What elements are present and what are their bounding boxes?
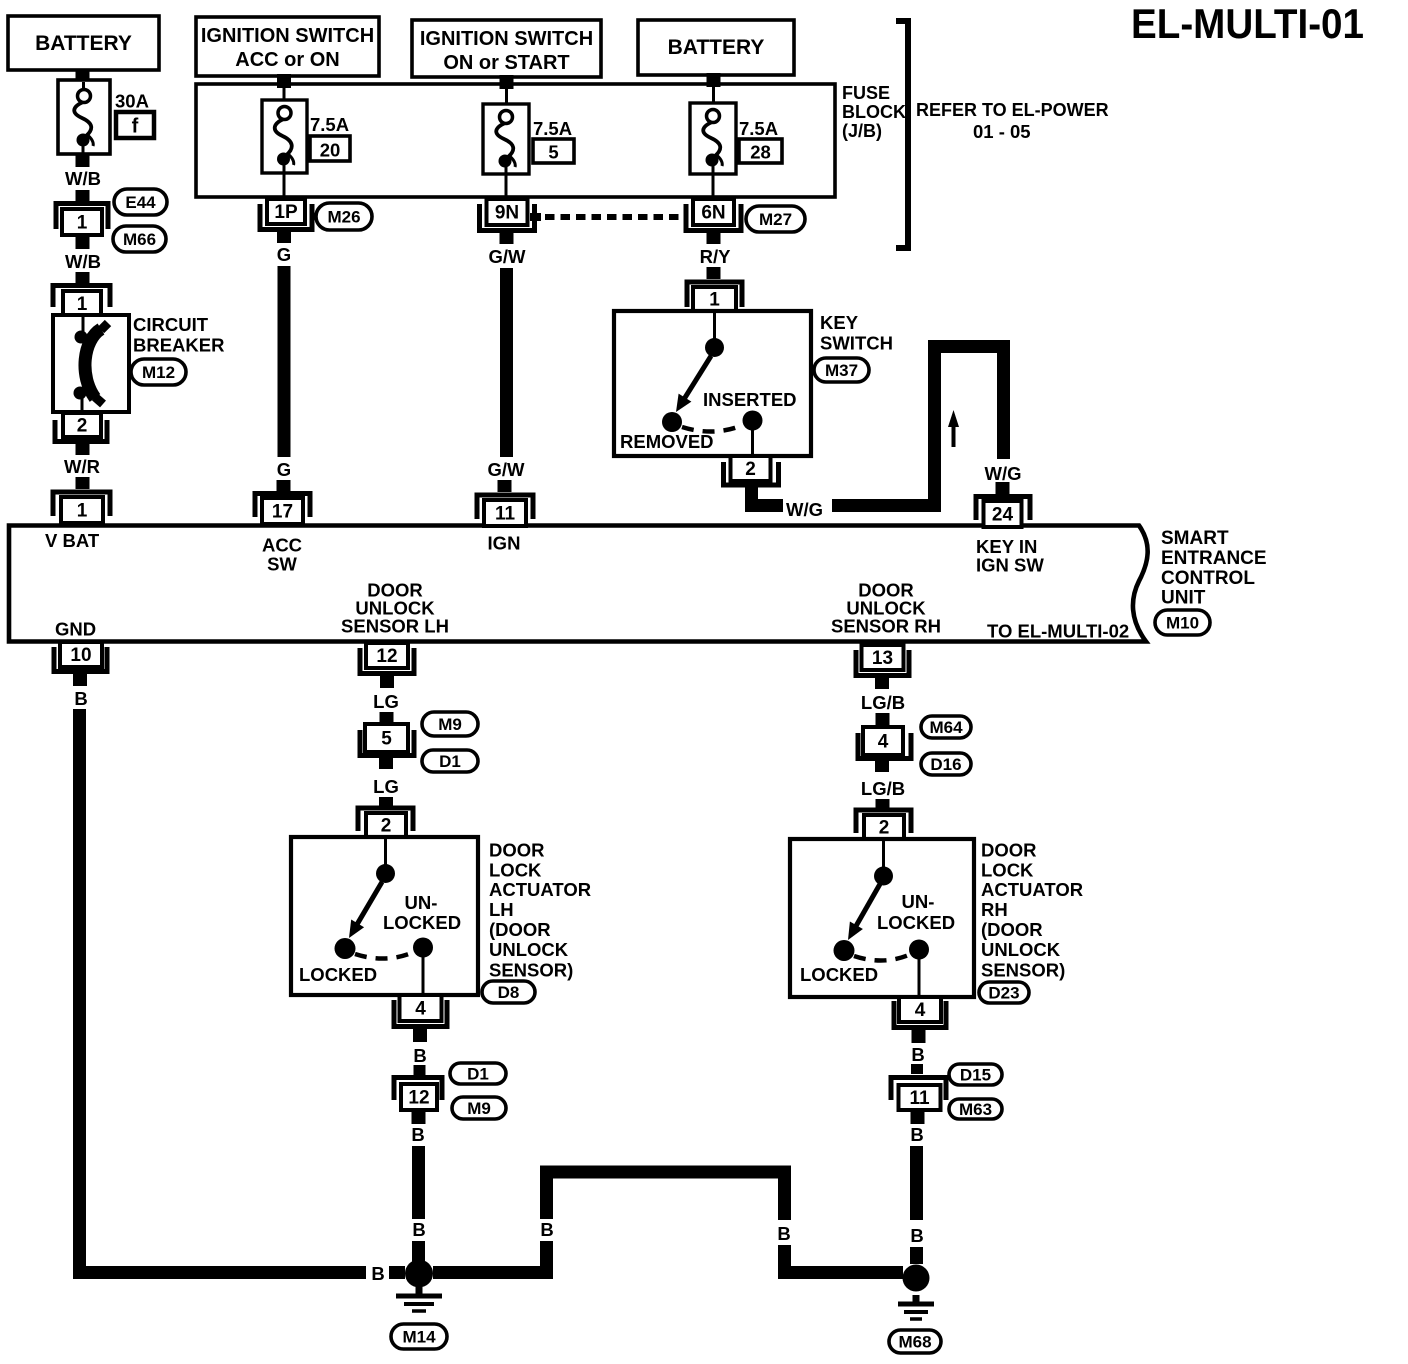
svg-text:4: 4 xyxy=(415,999,426,1020)
svg-text:1: 1 xyxy=(77,294,88,315)
ground label M68 xyxy=(889,1330,941,1353)
connector label M10 xyxy=(1155,610,1210,635)
terminal 17 ACC SW xyxy=(255,494,310,525)
svg-text:FUSE: FUSE xyxy=(842,83,890,103)
wire ON/START switch to fuse 5 xyxy=(500,75,514,111)
svg-text:W/B: W/B xyxy=(65,251,101,272)
door lock actuator LH D8 xyxy=(291,837,591,995)
fuse 20 7.5A xyxy=(262,100,350,199)
connector label D8 xyxy=(482,981,535,1003)
svg-text:1: 1 xyxy=(77,213,88,234)
connector pin 1 circuit breaker xyxy=(53,286,110,317)
svg-text:DOOR: DOOR xyxy=(489,840,545,861)
svg-text:ACC or ON: ACC or ON xyxy=(235,49,339,71)
svg-text:D8: D8 xyxy=(498,983,520,1002)
connector label M37 xyxy=(814,358,869,382)
svg-text:UNLOCK: UNLOCK xyxy=(981,939,1061,960)
connector label M66 xyxy=(113,226,166,252)
svg-text:1P: 1P xyxy=(274,202,298,223)
svg-text:SMART: SMART xyxy=(1161,528,1229,549)
svg-text:LOCK: LOCK xyxy=(489,860,542,881)
title EL-MULTI-01 xyxy=(1131,0,1364,47)
connector 4 actuator LH xyxy=(394,995,447,1042)
svg-text:D1: D1 xyxy=(439,752,461,771)
svg-text:9N: 9N xyxy=(495,203,519,224)
connector label D15 xyxy=(949,1064,1002,1085)
svg-text:M37: M37 xyxy=(825,361,858,380)
svg-text:B: B xyxy=(413,1045,426,1066)
connector 2 actuator RH xyxy=(856,810,911,839)
connector label M9 (lower) xyxy=(452,1097,506,1119)
ignition switch ON or START xyxy=(412,20,601,77)
svg-text:D23: D23 xyxy=(988,984,1019,1003)
connector 1 key switch xyxy=(687,282,742,311)
svg-text:RH: RH xyxy=(981,899,1008,920)
svg-text:01 - 05: 01 - 05 xyxy=(973,121,1031,142)
svg-text:B: B xyxy=(540,1219,553,1240)
terminal 24 KEY IN IGN SW xyxy=(976,497,1030,528)
connector label M63 xyxy=(949,1099,1002,1119)
svg-text:LG/B: LG/B xyxy=(861,692,905,713)
svg-text:G/W: G/W xyxy=(488,459,526,480)
svg-text:R/Y: R/Y xyxy=(700,246,732,267)
svg-text:LOCK: LOCK xyxy=(981,860,1034,881)
wire W/R xyxy=(64,456,100,489)
svg-text:W/G: W/G xyxy=(786,499,823,520)
svg-text:7.5A: 7.5A xyxy=(533,118,572,139)
svg-text:LG/B: LG/B xyxy=(861,778,905,799)
svg-text:10: 10 xyxy=(70,645,91,666)
svg-text:G/W: G/W xyxy=(489,246,527,267)
connector label D1 (upper) xyxy=(422,750,478,772)
svg-text:UNLOCK: UNLOCK xyxy=(489,939,569,960)
connector 4 M64/D16 xyxy=(858,713,911,772)
svg-text:LOCKED: LOCKED xyxy=(877,912,955,933)
svg-text:D15: D15 xyxy=(960,1066,991,1085)
svg-text:DOOR: DOOR xyxy=(981,840,1037,861)
wire G/W xyxy=(488,246,527,492)
svg-text:BATTERY: BATTERY xyxy=(35,32,132,55)
svg-text:M12: M12 xyxy=(142,363,175,382)
connector label D23 xyxy=(979,982,1029,1003)
svg-text:LOCKED: LOCKED xyxy=(383,912,461,933)
svg-text:M26: M26 xyxy=(327,208,360,227)
svg-text:2: 2 xyxy=(77,416,88,437)
svg-text:G: G xyxy=(277,459,291,480)
svg-text:B: B xyxy=(412,1219,425,1240)
svg-text:SENSOR RH: SENSOR RH xyxy=(831,616,941,637)
svg-text:17: 17 xyxy=(272,502,293,523)
ground label M14 xyxy=(391,1324,447,1349)
svg-text:M9: M9 xyxy=(438,715,462,734)
direction arrow up xyxy=(948,410,959,447)
svg-text:IGNITION SWITCH: IGNITION SWITCH xyxy=(201,25,374,47)
svg-text:M9: M9 xyxy=(467,1099,491,1118)
junction node M68 xyxy=(903,1265,930,1292)
connector label D16 xyxy=(921,753,971,775)
svg-text:GND: GND xyxy=(55,619,96,640)
svg-text:SWITCH: SWITCH xyxy=(820,333,893,354)
svg-text:M68: M68 xyxy=(898,1333,931,1352)
fuse 5 7.5A xyxy=(483,104,574,199)
svg-text:BATTERY: BATTERY xyxy=(668,36,765,59)
connector label M64 xyxy=(921,716,971,738)
svg-text:D1: D1 xyxy=(467,1065,489,1084)
svg-text:D16: D16 xyxy=(930,755,961,774)
svg-text:7.5A: 7.5A xyxy=(739,118,778,139)
svg-text:4: 4 xyxy=(915,1000,926,1021)
svg-text:B: B xyxy=(371,1263,384,1284)
svg-text:B: B xyxy=(74,688,87,709)
svg-text:5: 5 xyxy=(548,142,558,163)
svg-text:M27: M27 xyxy=(759,210,792,229)
wire LG/B lower xyxy=(861,778,905,808)
terminal 10 GND xyxy=(54,642,107,686)
svg-text:IGN SW: IGN SW xyxy=(976,555,1044,576)
svg-text:B: B xyxy=(910,1225,923,1246)
svg-text:REFER TO EL-POWER: REFER TO EL-POWER xyxy=(916,100,1109,120)
wire battery to fuse 28 xyxy=(707,73,721,109)
wire B below actuator LH xyxy=(413,1045,426,1075)
wire LG upper xyxy=(373,691,399,712)
connector label E44 xyxy=(114,189,167,215)
connector label M9 (upper) xyxy=(422,712,478,736)
svg-text:IGNITION SWITCH: IGNITION SWITCH xyxy=(420,28,593,50)
junction node M14 xyxy=(405,1260,433,1288)
connector 9N xyxy=(480,199,535,244)
connector 1P xyxy=(260,199,312,243)
wire B below actuator RH xyxy=(911,1044,925,1074)
svg-text:SENSOR): SENSOR) xyxy=(489,960,573,981)
svg-text:IGN: IGN xyxy=(488,533,521,554)
wire W/B (upper) xyxy=(65,154,101,202)
svg-text:M64: M64 xyxy=(929,718,963,737)
connector label M12 xyxy=(131,359,186,385)
wire G xyxy=(277,244,292,492)
svg-text:24: 24 xyxy=(992,505,1014,526)
connector 5 M9/D1 xyxy=(360,712,414,769)
battery (left) xyxy=(8,16,159,70)
svg-text:2: 2 xyxy=(745,459,756,480)
connector 4 actuator RH bottom xyxy=(894,997,946,1043)
ignition switch ACC or ON xyxy=(196,17,379,76)
wire ACC switch to fuse 20 xyxy=(277,74,291,107)
battery (right) xyxy=(638,20,794,75)
connector label M27 xyxy=(746,206,805,232)
fuse block bracket and note xyxy=(842,21,1109,248)
wire R/Y xyxy=(700,246,732,279)
svg-text:LOCKED: LOCKED xyxy=(800,964,878,985)
svg-text:W/R: W/R xyxy=(64,456,100,477)
svg-text:TO EL-MULTI-02: TO EL-MULTI-02 xyxy=(987,621,1129,642)
ground M14 xyxy=(396,1287,442,1311)
svg-text:28: 28 xyxy=(750,142,771,163)
svg-text:G: G xyxy=(277,244,291,265)
svg-text:B: B xyxy=(777,1223,790,1244)
svg-text:12: 12 xyxy=(408,1088,429,1109)
svg-text:(DOOR: (DOOR xyxy=(981,919,1043,940)
svg-text:11: 11 xyxy=(909,1088,930,1109)
connector 6N xyxy=(686,199,741,244)
svg-text:ENTRANCE: ENTRANCE xyxy=(1161,548,1267,569)
circuit breaker M12 xyxy=(53,314,224,414)
key switch M37 xyxy=(614,311,893,456)
svg-text:4: 4 xyxy=(878,732,889,753)
connector 11 D15/M63 xyxy=(891,1078,946,1125)
svg-text:M63: M63 xyxy=(959,1100,992,1119)
svg-text:2: 2 xyxy=(879,818,890,839)
svg-text:UN-: UN- xyxy=(405,892,438,913)
svg-text:M14: M14 xyxy=(402,1328,436,1347)
svg-text:BLOCK: BLOCK xyxy=(842,102,906,122)
svg-text:CONTROL: CONTROL xyxy=(1161,568,1255,589)
connector E44/M66 xyxy=(56,204,108,250)
fuse 28 7.5A xyxy=(690,103,782,199)
svg-text:2: 2 xyxy=(381,816,392,837)
svg-text:E44: E44 xyxy=(125,193,156,212)
wire W/G from key switch to terminal 24 xyxy=(745,340,1022,520)
dashed link 9N to 6N xyxy=(530,213,685,221)
terminal 1 V BAT xyxy=(53,492,110,523)
terminal 13 DOOR UNLOCK SENSOR RH xyxy=(856,645,909,689)
ground M68 xyxy=(898,1295,934,1319)
svg-text:(J/B): (J/B) xyxy=(842,121,882,141)
svg-text:30A: 30A xyxy=(115,91,149,112)
wire LG/B upper xyxy=(861,692,905,713)
svg-text:5: 5 xyxy=(381,729,392,750)
svg-text:INSERTED: INSERTED xyxy=(703,389,797,410)
unit name SMART ENTRANCE CONTROL UNIT xyxy=(1161,528,1267,609)
svg-text:UN-: UN- xyxy=(902,891,935,912)
wire LG lower xyxy=(373,776,399,807)
wire B bridge between grounds xyxy=(433,1166,903,1273)
svg-text:B: B xyxy=(411,1124,424,1145)
svg-text:6N: 6N xyxy=(701,203,725,224)
svg-text:LG: LG xyxy=(373,691,399,712)
wire B to ground M14 xyxy=(411,1124,425,1262)
wire battery to fusible link xyxy=(76,69,90,81)
connector label M26 xyxy=(316,203,372,230)
svg-text:CIRCUIT: CIRCUIT xyxy=(133,314,209,335)
connector label D1 (lower) xyxy=(450,1063,506,1084)
wire B to ground M68 xyxy=(910,1124,923,1264)
svg-text:W/G: W/G xyxy=(985,463,1022,484)
connector pin 2 circuit breaker xyxy=(55,413,107,455)
svg-text:13: 13 xyxy=(872,648,893,669)
terminal 11 IGN xyxy=(477,495,533,526)
terminal 12 DOOR UNLOCK SENSOR LH xyxy=(360,643,414,688)
smart entrance control unit M10 xyxy=(9,526,1148,642)
svg-text:1: 1 xyxy=(77,501,88,522)
svg-text:UNIT: UNIT xyxy=(1161,588,1206,609)
svg-text:f: f xyxy=(132,116,139,138)
door lock actuator RH D23 xyxy=(790,839,1083,997)
svg-text:LG: LG xyxy=(373,776,399,797)
svg-text:SW: SW xyxy=(267,554,297,575)
svg-text:SENSOR): SENSOR) xyxy=(981,960,1065,981)
svg-text:ON or START: ON or START xyxy=(443,52,569,74)
fusible link f 30A xyxy=(58,80,154,154)
wire W/B (lower) xyxy=(65,251,101,283)
connector 2 key switch xyxy=(724,456,779,485)
svg-text:ACTUATOR: ACTUATOR xyxy=(489,879,591,900)
fuse block (J/B) xyxy=(196,84,835,197)
svg-text:ACC: ACC xyxy=(262,535,302,556)
svg-text:BREAKER: BREAKER xyxy=(133,335,224,356)
svg-text:11: 11 xyxy=(495,504,516,525)
svg-text:M66: M66 xyxy=(123,230,156,249)
svg-text:1: 1 xyxy=(709,290,720,311)
svg-text:20: 20 xyxy=(320,140,341,161)
connector 2 actuator LH xyxy=(358,808,413,837)
svg-text:KEY: KEY xyxy=(820,312,859,333)
svg-text:12: 12 xyxy=(376,646,397,667)
svg-text:7.5A: 7.5A xyxy=(310,114,349,135)
wire B from GND terminal xyxy=(73,688,405,1284)
svg-text:ACTUATOR: ACTUATOR xyxy=(981,879,1083,900)
svg-text:M10: M10 xyxy=(1166,614,1199,633)
svg-text:B: B xyxy=(911,1044,924,1065)
svg-text:(DOOR: (DOOR xyxy=(489,919,551,940)
svg-text:LOCKED: LOCKED xyxy=(299,964,377,985)
svg-text:B: B xyxy=(910,1124,923,1145)
connector 12 D1/M9 xyxy=(394,1078,442,1125)
svg-text:REMOVED: REMOVED xyxy=(620,431,714,452)
svg-text:EL-MULTI-01: EL-MULTI-01 xyxy=(1131,0,1364,47)
svg-text:SENSOR LH: SENSOR LH xyxy=(341,616,449,637)
svg-text:V BAT: V BAT xyxy=(45,530,100,551)
svg-text:LH: LH xyxy=(489,899,514,920)
svg-text:W/B: W/B xyxy=(65,168,101,189)
